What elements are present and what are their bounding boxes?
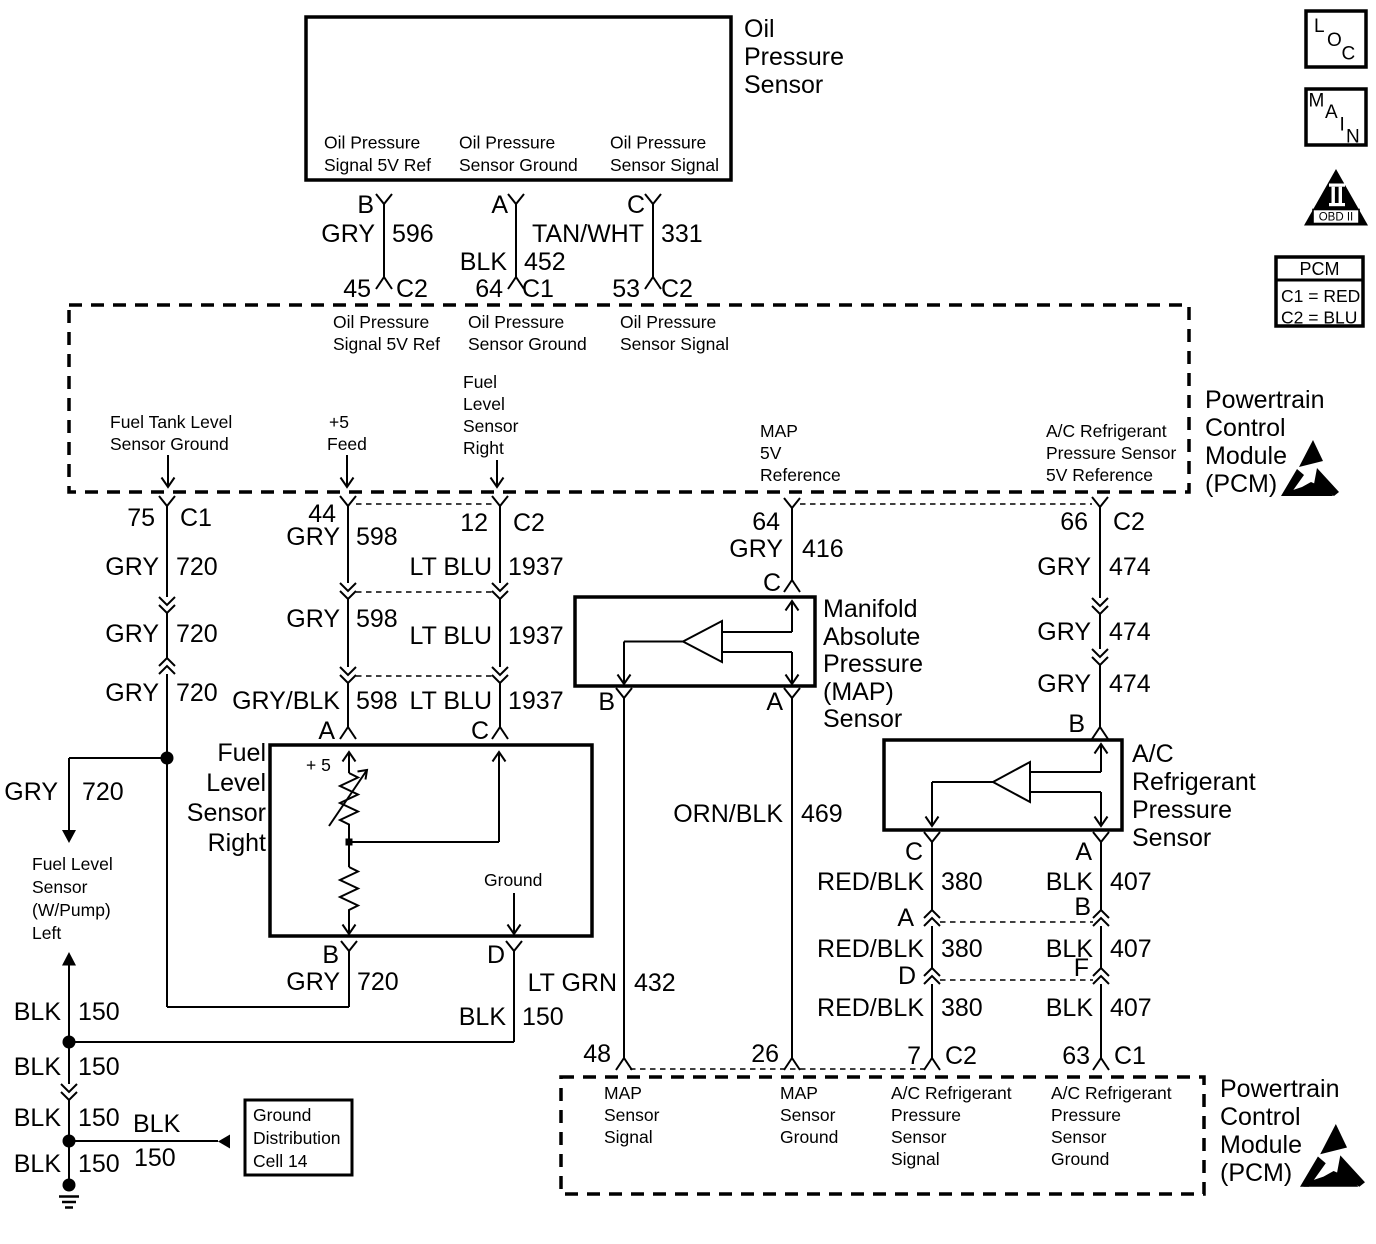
svg-text:Ground: Ground (253, 1105, 311, 1125)
pin A oil sensor (491, 191, 524, 219)
svg-text:TAN/WHT: TAN/WHT (532, 220, 644, 248)
svg-text:416: 416 (802, 535, 844, 563)
pin C fuel level sensor (471, 717, 508, 745)
svg-text:Level: Level (206, 769, 266, 797)
svg-text:720: 720 (82, 778, 124, 806)
inline connector GRY 474 (1092, 598, 1108, 614)
label A/C refrigerant pressure sensor ground (PCM internal) (1051, 1083, 1172, 1169)
wire BLK 150 segment 3 (68, 1100, 70, 1141)
pin A A/C refrigerant pressure sensor (1075, 832, 1109, 866)
MAIN reference box (1306, 89, 1366, 148)
svg-text:Control: Control (1220, 1103, 1301, 1131)
svg-text:720: 720 (176, 679, 218, 707)
svg-text:Signal 5V Ref: Signal 5V Ref (333, 334, 440, 354)
inline connector LT BLU 1937 (492, 667, 508, 683)
wire GRY 720 from pin B (167, 951, 349, 1007)
ESD sensitive symbol (top PCM) (1281, 440, 1339, 496)
A/C internal 5V input arrow (1030, 744, 1108, 772)
svg-text:RED/BLK: RED/BLK (817, 935, 924, 963)
svg-text:Pressure: Pressure (1132, 796, 1232, 824)
svg-text:407: 407 (1110, 868, 1152, 896)
svg-text:A/C Refrigerant: A/C Refrigerant (1046, 421, 1167, 441)
svg-text:GRY: GRY (286, 605, 340, 633)
svg-text:B: B (598, 688, 615, 716)
svg-text:Absolute: Absolute (823, 623, 920, 651)
wire GRY 720 segment 2 (166, 613, 168, 658)
label GRY 598 (286, 605, 397, 633)
svg-text:474: 474 (1109, 553, 1151, 581)
wire GRY 598 segment 2 (347, 599, 349, 667)
label LT BLU 1937 (410, 687, 564, 715)
wire GRY 596 (383, 204, 385, 277)
dashed connector tie D to F (940, 979, 1093, 981)
svg-text:Manifold: Manifold (823, 595, 918, 623)
svg-text:BLK: BLK (460, 248, 508, 276)
svg-text:Pressure Sensor: Pressure Sensor (1046, 443, 1177, 463)
svg-text:Oil Pressure: Oil Pressure (620, 312, 716, 332)
wire TAN/WHT 331 (652, 204, 654, 277)
svg-text:Sensor: Sensor (780, 1105, 836, 1125)
label BLK 452 (460, 248, 566, 276)
inline connector GRY 720 (159, 658, 175, 674)
svg-text:OBD II: OBD II (1319, 212, 1354, 224)
label BLK 407 (1046, 994, 1152, 1022)
svg-text:Ground: Ground (484, 870, 542, 890)
svg-text:Feed: Feed (327, 434, 367, 454)
wire BLK 150 to ground distribution (69, 1140, 218, 1142)
powertrain control module PCM dashed box (top) (69, 305, 1189, 492)
svg-text:GRY: GRY (4, 778, 58, 806)
label GRY 474 (1037, 553, 1151, 581)
svg-text:Oil: Oil (744, 15, 775, 43)
svg-text:Pressure: Pressure (823, 650, 923, 678)
svg-text:150: 150 (134, 1144, 176, 1172)
label Oil Pressure Sensor title (744, 15, 844, 99)
wire BLK 150 horizontal from pin D (69, 1041, 514, 1043)
inline connector BLK 150 (61, 1084, 77, 1100)
inline connector D RED/BLK 380 (898, 962, 940, 990)
svg-text:C2: C2 (396, 275, 428, 303)
svg-text:A/C Refrigerant: A/C Refrigerant (1051, 1083, 1172, 1103)
svg-text:Pressure: Pressure (891, 1105, 961, 1125)
svg-text:469: 469 (801, 800, 843, 828)
svg-text:RED/BLK: RED/BLK (817, 868, 924, 896)
svg-text:Cell 14: Cell 14 (253, 1151, 308, 1171)
svg-text:Sensor Signal: Sensor Signal (610, 155, 719, 175)
wire LT BLU 1937 segment 1 (499, 506, 501, 583)
inline connector GRY 598 (340, 583, 356, 599)
svg-text:Pressure: Pressure (744, 43, 844, 71)
svg-text:Right: Right (463, 438, 504, 458)
svg-text:GRY: GRY (105, 620, 159, 648)
variable resistor fuel sender (340, 773, 358, 842)
junction node to ground distribution (63, 1135, 76, 1148)
svg-text:Sensor Ground: Sensor Ground (468, 334, 587, 354)
svg-text:BLK: BLK (14, 998, 62, 1026)
wire GRY/BLK 598 segment 3 (347, 683, 349, 727)
label GRY 720 (105, 553, 217, 581)
wire GRY 474 segment 1 (1099, 507, 1101, 598)
svg-text:75: 75 (127, 504, 155, 532)
svg-text:Powertrain: Powertrain (1220, 1075, 1340, 1103)
svg-text:Reference: Reference (760, 465, 841, 485)
svg-text:GRY: GRY (105, 679, 159, 707)
svg-text:A: A (1325, 102, 1338, 123)
label BLK 150 (14, 1104, 120, 1132)
svg-text:Sensor Signal: Sensor Signal (620, 334, 729, 354)
pin A MAP sensor (766, 688, 800, 716)
svg-text:C: C (471, 717, 489, 745)
wire BLK 407 segment 2 (1100, 926, 1102, 968)
pin 53 C2 PCM (612, 275, 693, 303)
pin 48 PCM (583, 1040, 632, 1070)
svg-text:150: 150 (78, 998, 120, 1026)
svg-text:Sensor: Sensor (891, 1127, 947, 1147)
svg-text:598: 598 (356, 523, 398, 551)
svg-text:A/C: A/C (1132, 740, 1174, 768)
wire BLK 452 (515, 204, 517, 277)
dashed connector tie row 2 (356, 675, 492, 677)
wire GRY 720 segment 3 (166, 674, 168, 1007)
wiper node (346, 839, 353, 846)
svg-text:Level: Level (463, 394, 505, 414)
ESD sensitive symbol (bottom PCM) (1300, 1124, 1365, 1187)
svg-text:Ground: Ground (780, 1127, 838, 1147)
svg-text:Ground: Ground (1051, 1149, 1109, 1169)
variable resistor arrow (329, 770, 367, 826)
label oil pressure sensor signal (PCM internal) (620, 312, 729, 354)
svg-text:Sensor: Sensor (187, 799, 266, 827)
svg-text:F: F (1074, 954, 1089, 982)
svg-text:64: 64 (475, 275, 503, 303)
dashed connector tie 48 to 7 (630, 1068, 924, 1070)
svg-text:GRY: GRY (729, 535, 783, 563)
label Fuel Level Sensor Right (187, 739, 266, 857)
svg-text:380: 380 (941, 994, 983, 1022)
inline connector GRY/BLK 598 (340, 667, 356, 683)
pin 7 C2 PCM (907, 1042, 977, 1070)
fuel level sensor right box (270, 745, 592, 936)
pin B fuel level sensor (322, 941, 357, 969)
label A/C refrigerant pressure sensor signal (PCM internal) (891, 1083, 1012, 1169)
pin C oil sensor (627, 191, 661, 219)
label BLK 150 (ground distribution wire) (133, 1110, 181, 1172)
svg-text:C1 = RED: C1 = RED (1281, 286, 1360, 306)
svg-text:1937: 1937 (508, 687, 564, 715)
label fuel level sensor right (PCM internal) (463, 372, 519, 458)
label RED/BLK 380 (817, 994, 983, 1022)
label BLK 150 (14, 998, 120, 1026)
svg-text:598: 598 (356, 605, 398, 633)
LOC reference box (1306, 11, 1366, 67)
svg-text:Module: Module (1205, 442, 1287, 470)
label BLK 407 (1046, 868, 1152, 896)
label MAP sensor signal (PCM internal) (604, 1083, 660, 1147)
label GRY 474 (1037, 670, 1151, 698)
pin 64 C1 PCM (475, 275, 554, 303)
wire RED/BLK 380 segment 1 (931, 842, 933, 910)
svg-text:380: 380 (941, 935, 983, 963)
inline connector LT BLU 1937 (492, 583, 508, 599)
arrow +5 feed (341, 455, 354, 487)
label LT GRN 432 (528, 969, 676, 997)
svg-text:C: C (627, 191, 645, 219)
label BLK 150 (pin D) (459, 1003, 564, 1031)
wire BLK 150 segment 4 (68, 1141, 70, 1181)
svg-text:Sensor: Sensor (604, 1105, 660, 1125)
svg-text:Fuel: Fuel (463, 372, 497, 392)
svg-text:GRY: GRY (105, 553, 159, 581)
svg-text:Right: Right (208, 829, 266, 857)
dashed connector tie 64 to 66 (800, 503, 1092, 505)
wire GRY 598 segment 1 (347, 506, 349, 583)
A/C internal ground line to pin A (1030, 792, 1108, 826)
svg-text:C1: C1 (522, 275, 554, 303)
svg-text:C2: C2 (945, 1042, 977, 1070)
wire BLK 150 from pin D (513, 951, 515, 1042)
svg-text:5V Reference: 5V Reference (1046, 465, 1153, 485)
svg-text:C1: C1 (180, 504, 212, 532)
svg-text:596: 596 (392, 220, 434, 248)
svg-text:BLK: BLK (133, 1110, 181, 1138)
svg-text:150: 150 (78, 1053, 120, 1081)
svg-text:C2 = BLU: C2 = BLU (1281, 308, 1357, 328)
svg-text:C2: C2 (1113, 508, 1145, 536)
svg-text:D: D (898, 962, 916, 990)
svg-text:GRY: GRY (1037, 553, 1091, 581)
svg-text:Signal: Signal (604, 1127, 653, 1147)
label GRY 720 (pin B) (286, 968, 398, 996)
svg-text:A: A (1075, 838, 1092, 866)
arrow fuel level sensor right (491, 460, 504, 487)
svg-text:331: 331 (661, 220, 703, 248)
svg-text:B: B (322, 941, 339, 969)
svg-text:L: L (1314, 16, 1325, 37)
label oil pressure signal 5v ref (inside sensor box) (324, 133, 431, 176)
svg-text:720: 720 (357, 968, 399, 996)
svg-text:Signal: Signal (891, 1149, 940, 1169)
svg-text:66: 66 (1060, 508, 1088, 536)
svg-text:+5: +5 (329, 412, 349, 432)
label BLK 150 (14, 1053, 120, 1081)
svg-text:Refrigerant: Refrigerant (1132, 768, 1256, 796)
svg-text:C: C (905, 838, 923, 866)
svg-text:GRY: GRY (321, 220, 375, 248)
svg-text:O: O (1327, 30, 1342, 51)
arrow ground internal (508, 893, 521, 934)
pin C A/C refrigerant pressure sensor (905, 832, 940, 866)
label GRY 720 (105, 679, 217, 707)
label oil pressure signal 5v ref (PCM internal) (333, 312, 440, 354)
svg-text:Sensor: Sensor (32, 877, 88, 897)
label GRY 416 (729, 535, 843, 563)
svg-text:GRY: GRY (1037, 670, 1091, 698)
svg-text:(W/Pump): (W/Pump) (32, 900, 111, 920)
svg-text:Control: Control (1205, 414, 1286, 442)
pin 45 C2 PCM (343, 275, 428, 303)
svg-text:407: 407 (1110, 994, 1152, 1022)
svg-text:45: 45 (343, 275, 371, 303)
svg-text:474: 474 (1109, 670, 1151, 698)
svg-text:Sensor Ground: Sensor Ground (459, 155, 578, 175)
arrow to ground distribution cell (218, 1135, 230, 1149)
svg-text:BLK: BLK (14, 1104, 62, 1132)
svg-text:A: A (318, 717, 335, 745)
pin 66 C2 PCM (1060, 497, 1145, 536)
svg-text:150: 150 (522, 1003, 564, 1031)
svg-text:C1: C1 (1114, 1042, 1146, 1070)
label BLK 407 (1046, 935, 1152, 963)
wire BLK 407 segment 3 (1100, 984, 1102, 1058)
inline connector B BLK 407 (1074, 893, 1109, 926)
wire GRY 720 branch to left fuel sender (69, 758, 167, 830)
svg-text:GRY/BLK: GRY/BLK (232, 687, 340, 715)
ground distribution cell 14 box (245, 1100, 352, 1175)
PCM connector color legend box (1276, 257, 1363, 328)
svg-text:(PCM): (PCM) (1220, 1159, 1292, 1187)
label Manifold Absolute Pressure (MAP) Sensor (823, 595, 923, 733)
MAP sensor box (575, 597, 815, 686)
A/C transducer triangle (993, 762, 1030, 802)
inline connector A RED/BLK 380 (897, 904, 940, 932)
label GRY/BLK 598 (232, 687, 398, 715)
svg-text:Fuel Tank Level: Fuel Tank Level (110, 412, 232, 432)
svg-text:BLK: BLK (459, 1003, 507, 1031)
pin 44 PCM (308, 496, 356, 528)
svg-text:+ 5: + 5 (306, 755, 331, 775)
svg-text:LT GRN: LT GRN (528, 969, 617, 997)
label RED/BLK 380 (817, 868, 983, 896)
svg-text:BLK: BLK (14, 1150, 62, 1178)
pin 12 C2 PCM (460, 496, 545, 537)
svg-text:Sensor: Sensor (1132, 824, 1211, 852)
pin B oil sensor (357, 191, 392, 219)
arrow from fuel level sensor left (62, 952, 76, 966)
OBD II symbol (1304, 169, 1368, 226)
ground (59, 1179, 79, 1208)
svg-text:64: 64 (752, 508, 780, 536)
pin 63 C1 PCM (1062, 1042, 1146, 1070)
svg-text:A/C Refrigerant: A/C Refrigerant (891, 1083, 1012, 1103)
svg-text:M: M (1309, 91, 1325, 112)
svg-text:GRY: GRY (286, 523, 340, 551)
label TAN/WHT 331 (532, 220, 703, 248)
svg-text:720: 720 (176, 553, 218, 581)
pin 64 PCM (MAP 5V) (752, 498, 800, 536)
svg-text:5V: 5V (760, 443, 782, 463)
label LT BLU 1937 (410, 622, 564, 650)
MAP internal 5V input arrow (722, 601, 799, 632)
svg-text:LT BLU: LT BLU (410, 687, 492, 715)
wire LT GRN 432 (623, 698, 625, 1058)
svg-text:Distribution: Distribution (253, 1128, 341, 1148)
MAP internal signal line to pin B (618, 642, 684, 685)
svg-text:A: A (897, 904, 914, 932)
dashed connector tie row 1 (356, 591, 492, 593)
powertrain control module PCM dashed box (bottom) (561, 1077, 1204, 1194)
label Powertrain Control Module (PCM) bottom (1220, 1075, 1340, 1187)
label MAP sensor ground (PCM internal) (780, 1083, 838, 1147)
label Fuel Level Sensor (W/Pump) Left (32, 854, 113, 943)
pin C MAP sensor (763, 569, 800, 597)
arrow +5 internal (343, 752, 356, 773)
MAP transducer triangle (683, 621, 722, 662)
svg-text:Sensor Ground: Sensor Ground (110, 434, 229, 454)
arrow to fuel level sensor left (62, 830, 76, 843)
svg-text:1937: 1937 (508, 622, 564, 650)
svg-text:380: 380 (941, 868, 983, 896)
svg-text:LT BLU: LT BLU (410, 622, 492, 650)
svg-text:720: 720 (176, 620, 218, 648)
svg-text:Pressure: Pressure (1051, 1105, 1121, 1125)
svg-text:RED/BLK: RED/BLK (817, 994, 924, 1022)
wire ORN/BLK 469 (791, 698, 793, 1058)
svg-text:48: 48 (583, 1040, 611, 1068)
A/C refrigerant pressure sensor box (884, 740, 1122, 830)
svg-text:12: 12 (460, 509, 488, 537)
inline connector GRY 474 (1092, 649, 1108, 665)
label Ground Distribution Cell 14 (253, 1105, 341, 1171)
svg-text:B: B (1068, 710, 1085, 738)
svg-text:A: A (766, 688, 783, 716)
label GRY 720 (105, 620, 217, 648)
wire wiper to pin C (349, 752, 506, 842)
pin B A/C refrigerant pressure sensor (1068, 710, 1108, 739)
svg-text:Sensor: Sensor (823, 705, 902, 733)
svg-text:(PCM): (PCM) (1205, 470, 1277, 498)
svg-text:Sensor: Sensor (744, 71, 823, 99)
junction node BLK 150 (63, 1036, 76, 1049)
dashed connector tie 44 to 12 (356, 503, 492, 505)
svg-text:Fuel: Fuel (217, 739, 266, 767)
label GRY 596 (321, 220, 433, 248)
svg-text:Left: Left (32, 923, 61, 943)
svg-text:Signal 5V Ref: Signal 5V Ref (324, 155, 431, 175)
svg-text:Oil Pressure: Oil Pressure (324, 133, 420, 153)
label fuel tank level sensor ground (PCM internal) (110, 412, 232, 454)
svg-text:I: I (1340, 115, 1345, 136)
svg-text:LT BLU: LT BLU (410, 553, 492, 581)
wire LT BLU 1937 segment 2 (499, 599, 501, 667)
wire resistor to pin B arrow (343, 913, 356, 934)
label GRY 598 (286, 523, 397, 551)
wire GRY 720 segment 1 (166, 506, 168, 597)
svg-text:Oil Pressure: Oil Pressure (333, 312, 429, 332)
pin 26 PCM (751, 1040, 800, 1070)
svg-text:C2: C2 (661, 275, 693, 303)
svg-text:432: 432 (634, 969, 676, 997)
svg-text:D: D (487, 941, 505, 969)
svg-text:N: N (1346, 127, 1360, 148)
label RED/BLK 380 (817, 935, 983, 963)
pin D fuel level sensor (487, 941, 522, 969)
label BLK 150 (14, 1150, 120, 1178)
svg-text:Sensor: Sensor (1051, 1127, 1107, 1147)
svg-text:GRY: GRY (286, 968, 340, 996)
svg-text:Oil Pressure: Oil Pressure (610, 133, 706, 153)
wire BLK 407 segment 1 (1100, 842, 1102, 910)
svg-text:407: 407 (1110, 935, 1152, 963)
svg-text:C2: C2 (513, 509, 545, 537)
wire BLK 150 segment 1 (68, 965, 70, 1042)
pin B MAP sensor (598, 688, 632, 716)
label A/C Refrigerant Pressure Sensor (1132, 740, 1256, 852)
svg-text:A: A (491, 191, 508, 219)
svg-text:MAP: MAP (604, 1083, 642, 1103)
label oil pressure sensor signal (inside sensor box) (610, 133, 719, 176)
svg-text:BLK: BLK (1046, 868, 1094, 896)
svg-text:598: 598 (356, 687, 398, 715)
